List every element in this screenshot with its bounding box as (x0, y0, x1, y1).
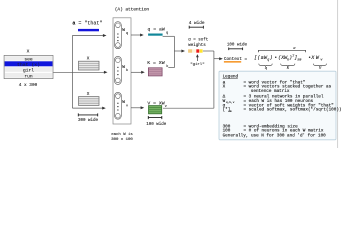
svg-text:Generally, use N for 300 and ': Generally, use N for 300 and 'd' for 100 (223, 134, 327, 139)
wire q to junction (163, 35, 175, 37)
svg-text:k: k (126, 68, 128, 73)
svg-text:W: W (122, 99, 125, 105)
bracket 100 wide (229, 48, 243, 51)
svg-text:W: W (122, 64, 125, 70)
arrow Wk out (131, 71, 142, 73)
svg-text:4 x 300: 4 x 300 (19, 83, 38, 88)
orange underline (224, 61, 241, 63)
svg-text:run: run (24, 74, 33, 79)
svg-text:each W is: each W is (111, 132, 133, 137)
arrow junction to alpha (174, 50, 181, 52)
legend box (219, 71, 336, 140)
svg-text:v: v (126, 104, 128, 108)
svg-text:X: X (223, 85, 226, 90)
svg-text:weights: weights (188, 43, 206, 48)
svg-text:X: X (27, 48, 30, 54)
underbrace K (281, 64, 295, 67)
W box (113, 18, 131, 124)
svg-text:100 wide: 100 wide (146, 122, 167, 127)
svg-text:K = XW: K = XW (147, 60, 164, 66)
underbrace q (259, 64, 272, 67)
wire branch vertical (71, 36, 73, 109)
underbrace V (313, 64, 326, 67)
svg-text:300 x 100: 300 x 100 (111, 138, 133, 142)
neural net capsule Wk (115, 56, 122, 84)
wire table to branch (53, 71, 72, 73)
svg-text:q,k,v: q,k,v (226, 100, 235, 104)
svg-text:sentence matrix: sentence matrix (251, 89, 290, 94)
arrow Wq out (131, 34, 141, 36)
wire junction vertical (173, 36, 175, 67)
arrow to Wv (72, 107, 102, 109)
bracket 300 wide (78, 113, 97, 116)
svg-text:= scaled softmax, softmax(*/sq: = scaled softmax, softmax(*/sqrt(100)) (244, 108, 341, 113)
arrow to Context (214, 58, 220, 60)
wire V to vertical (163, 107, 214, 109)
arrow to Wk (72, 71, 104, 73)
svg-text:α = soft: α = soft (188, 37, 209, 42)
K matrix pink (148, 68, 162, 76)
svg-text:v: v (165, 105, 167, 109)
svg-text:q: q (126, 32, 128, 36)
svg-text:(A) attention: (A) attention (115, 7, 150, 13)
alpha soft weight squares (188, 49, 203, 52)
arrow girl to red square (196, 57, 198, 61)
svg-text:girl: girl (23, 68, 34, 74)
svg-text:•: • (274, 55, 277, 61)
wire context vertical (213, 51, 215, 108)
svg-text:q = aW: q = aW (148, 27, 165, 33)
svg-text:k: k (166, 64, 168, 69)
svg-text:"girl": "girl" (190, 62, 204, 67)
teal bar q vector (148, 34, 163, 36)
svg-text:that (x): that (x) (17, 62, 40, 68)
svg-text:X: X (87, 57, 90, 62)
svg-text:sm: sm (228, 110, 232, 113)
svg-text:q: q (166, 32, 168, 36)
neural net capsule Wv (115, 92, 122, 119)
svg-text:100 wide: 100 wide (227, 43, 248, 48)
arrow to Wq (72, 35, 103, 37)
V matrix green (149, 106, 162, 114)
svg-text:a = "that": a = "that" (72, 21, 102, 27)
wire K to junction (168, 67, 174, 69)
bracket 100 wide under V (148, 116, 162, 119)
blue bar a vector (78, 29, 99, 31)
page edge line (337, 0, 339, 148)
wire alpha to vertical (203, 50, 214, 52)
formula overbrace alpha (259, 50, 306, 52)
bracket 4 wide (189, 26, 203, 29)
svg-text:see: see (24, 57, 33, 62)
table X sentence matrix (4, 55, 53, 79)
svg-text:W: W (122, 27, 125, 33)
neural net capsule Wq (115, 22, 122, 49)
svg-text:300 wide: 300 wide (78, 118, 99, 123)
arrow Wv out (131, 107, 141, 109)
svg-text:4 wide: 4 wide (189, 21, 205, 26)
